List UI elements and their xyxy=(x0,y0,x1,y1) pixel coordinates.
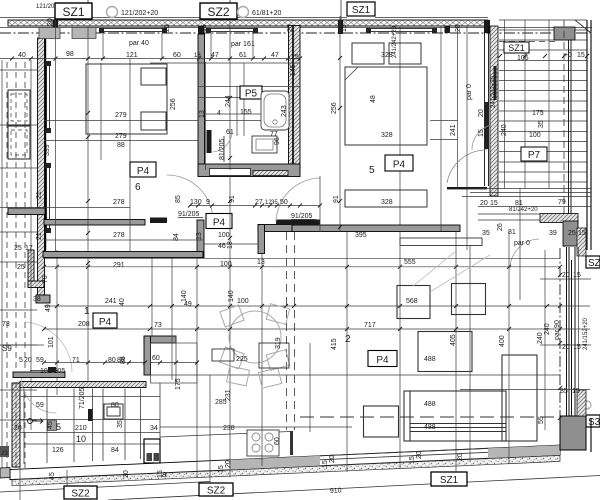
svg-text:15: 15 xyxy=(341,24,348,32)
wall bottom right corner xyxy=(560,390,591,452)
svg-text:P4: P4 xyxy=(376,355,389,366)
wire top connector line xyxy=(0,17,488,19)
svg-text:15: 15 xyxy=(573,344,581,351)
svg-text:61: 61 xyxy=(226,129,234,136)
svg-text:35: 35 xyxy=(271,200,278,206)
wall lintel gray blocks top-left xyxy=(39,28,96,39)
wire room6 lines xyxy=(0,63,198,208)
svg-text:488: 488 xyxy=(424,424,436,431)
svg-text:71: 71 xyxy=(72,357,80,364)
svg-text:91: 91 xyxy=(229,195,236,203)
door leaf kitchen xyxy=(48,367,56,372)
svg-text:20: 20 xyxy=(329,455,336,463)
svg-text:15: 15 xyxy=(201,24,208,32)
wall room1 north main xyxy=(43,252,203,258)
svg-text:20: 20 xyxy=(455,24,462,32)
svg-text:61: 61 xyxy=(239,52,247,59)
wire corner diagonal top right xyxy=(575,20,591,33)
window W3 top x370-432 xyxy=(366,28,437,33)
svg-text:P7: P7 xyxy=(528,150,541,161)
svg-text:60: 60 xyxy=(274,437,281,445)
svg-text:15: 15 xyxy=(218,465,225,473)
svg-text:243: 243 xyxy=(281,105,288,117)
svg-text:96: 96 xyxy=(274,137,281,145)
node circle right xyxy=(583,401,591,409)
svg-text:SZ2: SZ2 xyxy=(207,5,229,19)
door arc room5 xyxy=(276,178,320,222)
fixture bathtub xyxy=(261,91,289,130)
svg-text:P4: P4 xyxy=(99,317,112,328)
furniture table round xyxy=(212,304,290,388)
svg-text:20: 20 xyxy=(416,451,423,459)
svg-text:81: 81 xyxy=(515,200,523,207)
wire dim row top xyxy=(0,59,300,171)
svg-text:5: 5 xyxy=(369,165,375,176)
svg-text:15: 15 xyxy=(478,129,485,137)
svg-text:15: 15 xyxy=(572,388,580,395)
wire right axis dash-dot vertical xyxy=(559,248,561,452)
svg-text:10: 10 xyxy=(76,434,86,444)
wall left exterior hatched vertical xyxy=(12,38,72,467)
svg-text:278: 278 xyxy=(113,199,125,206)
door arc entry xyxy=(447,150,487,183)
svg-text:101: 101 xyxy=(48,336,55,348)
node P4 living label xyxy=(368,351,397,367)
svg-text:15: 15 xyxy=(577,52,585,59)
svg-text:26: 26 xyxy=(497,223,504,231)
node 61/81+20 xyxy=(238,7,282,18)
wire left balcony dashed verticals xyxy=(7,62,25,470)
svg-text:13: 13 xyxy=(196,232,203,240)
svg-text:25: 25 xyxy=(17,264,25,271)
texts dimensions top xyxy=(18,40,586,395)
svg-text:38: 38 xyxy=(33,296,41,303)
window left wall room6 xyxy=(47,66,50,228)
svg-text:20: 20 xyxy=(164,24,171,32)
svg-text:SZ2: SZ2 xyxy=(207,486,226,497)
door leaf room6 xyxy=(150,218,167,224)
svg-text:81/242+20: 81/242+20 xyxy=(509,207,538,213)
svg-text:555: 555 xyxy=(404,259,416,266)
svg-text:328: 328 xyxy=(381,199,393,206)
svg-text:80: 80 xyxy=(111,402,119,409)
wire kitchen counter bottom xyxy=(160,427,352,437)
svg-text:568: 568 xyxy=(406,298,418,305)
svg-text:319: 319 xyxy=(275,337,282,349)
svg-text:241/242+20: 241/242+20 xyxy=(491,75,497,108)
svg-text:399: 399 xyxy=(44,144,51,156)
svg-text:6: 6 xyxy=(135,182,141,193)
svg-text:238: 238 xyxy=(223,425,235,432)
svg-text:2: 2 xyxy=(345,334,351,345)
svg-text:49: 49 xyxy=(45,304,52,312)
svg-text:285: 285 xyxy=(215,399,227,406)
wire stair dashed vertical xyxy=(563,20,565,248)
ticks dimension rows xyxy=(10,57,562,365)
node P4 room6 label xyxy=(130,162,156,177)
svg-text:100: 100 xyxy=(220,261,232,268)
svg-text:241: 241 xyxy=(105,298,117,305)
svg-text:405: 405 xyxy=(450,334,457,346)
svg-text:20: 20 xyxy=(480,200,488,207)
furniture tv square xyxy=(452,284,486,315)
wall stair west face lines xyxy=(485,26,489,186)
wall chimney gray block top right xyxy=(554,27,575,40)
svg-text:81: 81 xyxy=(508,229,516,236)
wall bottom slanted band xyxy=(0,445,560,486)
svg-text:400: 400 xyxy=(499,335,506,347)
svg-text:40: 40 xyxy=(119,298,126,306)
node 121/202+20 xyxy=(107,7,159,18)
svg-text:88: 88 xyxy=(117,357,125,364)
ticks vertical dim lines xyxy=(86,54,589,420)
svg-text:15: 15 xyxy=(578,230,586,237)
svg-text:18: 18 xyxy=(227,241,234,249)
svg-text:20: 20 xyxy=(225,460,232,468)
svg-text:13: 13 xyxy=(194,53,201,59)
wall top exterior hatched band xyxy=(0,20,592,28)
svg-text:50: 50 xyxy=(280,199,288,206)
wall bathroom south xyxy=(198,164,300,177)
node SZ1 top label xyxy=(55,3,92,19)
svg-text:13: 13 xyxy=(199,110,206,118)
svg-text:20: 20 xyxy=(457,453,464,461)
wire lower thin verticals xyxy=(88,176,545,478)
wall right hatch strip below xyxy=(577,228,586,256)
wall lower stair hatch xyxy=(540,214,578,223)
svg-text:par 0: par 0 xyxy=(514,240,530,247)
svg-text:SZ: SZ xyxy=(588,258,600,269)
svg-text:140: 140 xyxy=(228,290,235,302)
svg-text:88: 88 xyxy=(117,142,125,149)
furniture sofa big xyxy=(364,355,538,441)
wall left stub xyxy=(8,208,45,215)
wire top axis dash-dot xyxy=(0,32,590,34)
svg-text:45: 45 xyxy=(49,472,56,480)
svg-text:145: 145 xyxy=(290,64,297,76)
svg-text:21: 21 xyxy=(36,191,43,199)
node P4 room1 label xyxy=(93,313,117,328)
svg-text:278: 278 xyxy=(113,232,125,239)
svg-text:155: 155 xyxy=(240,109,252,116)
texts dims mid xyxy=(2,52,416,454)
svg-text:25: 25 xyxy=(14,245,22,252)
svg-text:100: 100 xyxy=(218,232,230,239)
svg-text:100: 100 xyxy=(237,298,249,305)
svg-text:910: 910 xyxy=(330,487,342,495)
svg-text:15: 15 xyxy=(322,460,329,468)
svg-text:par 40: par 40 xyxy=(129,40,149,47)
svg-text:S3: S3 xyxy=(588,417,600,428)
svg-text:73: 73 xyxy=(2,321,10,328)
svg-text:279: 279 xyxy=(115,112,127,119)
svg-text:SZ2: SZ2 xyxy=(71,489,90,500)
node SZ1 stair label xyxy=(504,42,529,53)
svg-text:240: 240 xyxy=(544,323,551,335)
svg-text:85: 85 xyxy=(560,388,568,395)
node P5 bath label xyxy=(240,86,262,100)
wire dashdot horizontal living xyxy=(300,416,560,418)
wall hall west x197-204 xyxy=(197,220,204,258)
svg-text:79: 79 xyxy=(558,199,566,206)
svg-text:121/202+20: 121/202+20 xyxy=(121,10,158,17)
svg-text:488: 488 xyxy=(424,356,436,363)
svg-text:59: 59 xyxy=(36,357,44,364)
svg-text:S9: S9 xyxy=(2,344,12,353)
node SZ2 top label xyxy=(200,3,237,19)
svg-text:20: 20 xyxy=(562,344,570,351)
svg-text:20: 20 xyxy=(14,425,22,432)
svg-text:P4: P4 xyxy=(213,218,226,229)
svg-text:84: 84 xyxy=(173,233,180,241)
svg-text:4: 4 xyxy=(217,110,221,117)
svg-text:241/152+20: 241/152+20 xyxy=(583,317,589,350)
svg-text:25: 25 xyxy=(568,230,576,237)
svg-text:48: 48 xyxy=(370,95,377,103)
svg-text:1: 1 xyxy=(84,306,90,317)
svg-text:20: 20 xyxy=(24,357,32,364)
wire tv diagonals xyxy=(413,252,490,292)
svg-text:61/81+20: 61/81+20 xyxy=(252,10,281,17)
fixture washer xyxy=(104,404,123,419)
svg-text:SZ1: SZ1 xyxy=(440,475,459,486)
wall room6 south with door xyxy=(44,220,145,226)
furniture balcony table rects xyxy=(8,90,30,159)
svg-text:291: 291 xyxy=(113,262,125,269)
svg-text:45: 45 xyxy=(47,421,54,429)
svg-text:9: 9 xyxy=(206,199,210,206)
svg-text:91: 91 xyxy=(333,195,340,203)
svg-text:60: 60 xyxy=(152,355,160,362)
wall kitchen north xyxy=(20,382,146,388)
svg-text:328: 328 xyxy=(381,52,393,59)
svg-text:35: 35 xyxy=(538,120,545,128)
svg-text:27: 27 xyxy=(255,199,263,206)
wall hall L corner xyxy=(258,225,292,232)
furniture 568 cabinet xyxy=(397,286,430,319)
svg-text:par 161: par 161 xyxy=(231,41,255,48)
svg-text:55: 55 xyxy=(538,416,545,424)
wire bottom dimension slant xyxy=(0,482,210,493)
svg-text:47: 47 xyxy=(211,52,219,59)
kitchen cabinets grid xyxy=(20,383,160,464)
stair landing lines lower xyxy=(462,189,591,207)
wire wc room lines xyxy=(151,336,198,383)
svg-text:71/205: 71/205 xyxy=(79,387,86,409)
svg-text:70: 70 xyxy=(42,275,49,283)
svg-text:395: 395 xyxy=(355,232,367,239)
door arc room6 xyxy=(167,175,213,221)
node SZ right label 2 xyxy=(586,415,600,428)
wall room5 south long xyxy=(292,225,460,232)
svg-text:85: 85 xyxy=(175,195,182,203)
svg-text:SZ1: SZ1 xyxy=(352,5,371,16)
furniture room5 bed xyxy=(345,43,427,145)
svg-text:25: 25 xyxy=(291,54,299,61)
svg-text:40: 40 xyxy=(18,52,26,59)
svg-text:91/205: 91/205 xyxy=(178,211,200,218)
svg-text:415: 415 xyxy=(331,338,338,350)
wire top label leaders xyxy=(88,0,341,21)
svg-text:98: 98 xyxy=(66,51,74,58)
svg-text:15: 15 xyxy=(490,200,498,207)
svg-text:244: 244 xyxy=(225,95,232,107)
node P7 stair label xyxy=(521,147,547,161)
svg-text:91/205: 91/205 xyxy=(291,213,313,220)
wall pillars in top band xyxy=(53,20,491,37)
svg-text:13: 13 xyxy=(257,259,265,266)
svg-text:60: 60 xyxy=(173,52,181,59)
furniture coffee table 488 xyxy=(418,332,472,372)
svg-text:35: 35 xyxy=(482,230,490,237)
fixture stove xyxy=(247,430,279,456)
wall bathroom east hatched x288-300 xyxy=(289,26,301,171)
wire mid dim rows xyxy=(0,206,591,390)
svg-text:240: 240 xyxy=(537,332,544,344)
symbol outlet arrow xyxy=(28,419,44,424)
node SZ right label 1 xyxy=(586,256,600,269)
wall room1 west lintels xyxy=(44,235,99,237)
svg-text:100: 100 xyxy=(529,132,541,139)
node P4 hall label xyxy=(206,214,232,229)
wall stair right x587-591 xyxy=(587,20,591,250)
wall stair hall west hatched xyxy=(490,26,498,196)
svg-text:488: 488 xyxy=(424,401,436,408)
svg-text:49: 49 xyxy=(184,301,192,308)
svg-text:126: 126 xyxy=(52,447,64,454)
svg-text:5: 5 xyxy=(56,422,61,432)
node 23 left box xyxy=(0,446,9,457)
window W1 top x103-162 xyxy=(99,28,167,33)
svg-text:84: 84 xyxy=(111,447,119,454)
wall right boundary verticals xyxy=(567,247,576,432)
svg-text:20: 20 xyxy=(562,272,570,279)
svg-text:17: 17 xyxy=(25,245,33,252)
svg-text:P4: P4 xyxy=(393,160,406,171)
svg-text:210: 210 xyxy=(75,425,87,432)
svg-text:241/242+20: 241/242+20 xyxy=(392,25,398,58)
svg-text:81/205: 81/205 xyxy=(219,138,226,160)
wall gray block right mid xyxy=(563,221,578,246)
svg-text:20: 20 xyxy=(123,470,130,478)
wire interior thin verticals top xyxy=(56,16,521,251)
fixture washbasin xyxy=(252,136,277,153)
svg-text:175: 175 xyxy=(175,378,182,390)
wire stair verticals xyxy=(505,20,550,188)
svg-text:80: 80 xyxy=(108,357,116,364)
svg-text:256: 256 xyxy=(331,102,338,114)
fixture fridge dark xyxy=(144,439,160,463)
svg-text:256: 256 xyxy=(170,98,177,110)
node SZ1 top right label xyxy=(347,2,375,16)
svg-text:225: 225 xyxy=(236,356,248,363)
svg-text:23: 23 xyxy=(1,451,8,457)
svg-text:73: 73 xyxy=(154,322,162,329)
svg-text:77: 77 xyxy=(270,131,278,138)
svg-text:241: 241 xyxy=(450,124,457,136)
furniture room5 wardrobe xyxy=(345,190,427,207)
svg-text:105: 105 xyxy=(517,55,529,62)
underlines door labels xyxy=(30,136,316,371)
svg-text:35: 35 xyxy=(117,420,124,428)
wall kitchen door area xyxy=(13,372,65,378)
svg-text:15: 15 xyxy=(573,272,581,279)
svg-text:34: 34 xyxy=(150,425,158,432)
svg-text:P5: P5 xyxy=(245,89,258,100)
svg-text:175: 175 xyxy=(532,110,544,117)
svg-text:328: 328 xyxy=(381,132,393,139)
svg-text:130: 130 xyxy=(190,199,202,206)
svg-text:240: 240 xyxy=(501,124,508,136)
svg-text:15: 15 xyxy=(157,470,164,478)
window W2 top x210-253 xyxy=(206,28,258,33)
svg-text:par 90: par 90 xyxy=(554,320,561,340)
furniture room6 bed xyxy=(86,64,167,134)
svg-text:15: 15 xyxy=(409,456,416,464)
svg-text:20: 20 xyxy=(287,24,294,32)
svg-text:101/205: 101/205 xyxy=(40,368,65,375)
svg-text:20: 20 xyxy=(47,18,54,26)
svg-text:121: 121 xyxy=(126,52,138,59)
svg-text:SZ1: SZ1 xyxy=(508,43,525,53)
svg-text:5: 5 xyxy=(19,357,23,364)
svg-text:20: 20 xyxy=(478,109,485,117)
svg-text:279: 279 xyxy=(115,133,127,140)
wire room5 east thin lines xyxy=(430,26,458,231)
svg-text:21: 21 xyxy=(36,232,43,240)
door bath leaf xyxy=(207,130,212,153)
svg-text:717: 717 xyxy=(364,322,376,329)
svg-text:SZ1: SZ1 xyxy=(62,5,84,19)
svg-text:par 0: par 0 xyxy=(466,84,473,100)
wall wc corner xyxy=(144,336,176,375)
node SZ2 bottom label 2 xyxy=(199,483,233,497)
node P4 room5 label xyxy=(385,155,413,171)
svg-text:47: 47 xyxy=(271,52,279,59)
svg-text:+0: +0 xyxy=(564,52,572,59)
node SZ2 bottom label 1 xyxy=(64,486,97,500)
node SZ1 bottom label xyxy=(431,472,467,486)
svg-text:59: 59 xyxy=(36,402,44,409)
svg-text:46: 46 xyxy=(218,243,226,250)
stairs treads xyxy=(499,20,587,182)
wire stair rail verticals xyxy=(569,40,572,230)
wire dashed verticals living xyxy=(287,232,295,430)
door leaf room5 xyxy=(276,220,320,225)
wall bathroom west x198-204 xyxy=(198,34,205,176)
svg-text:P4: P4 xyxy=(137,166,150,177)
svg-text:39: 39 xyxy=(549,230,557,237)
